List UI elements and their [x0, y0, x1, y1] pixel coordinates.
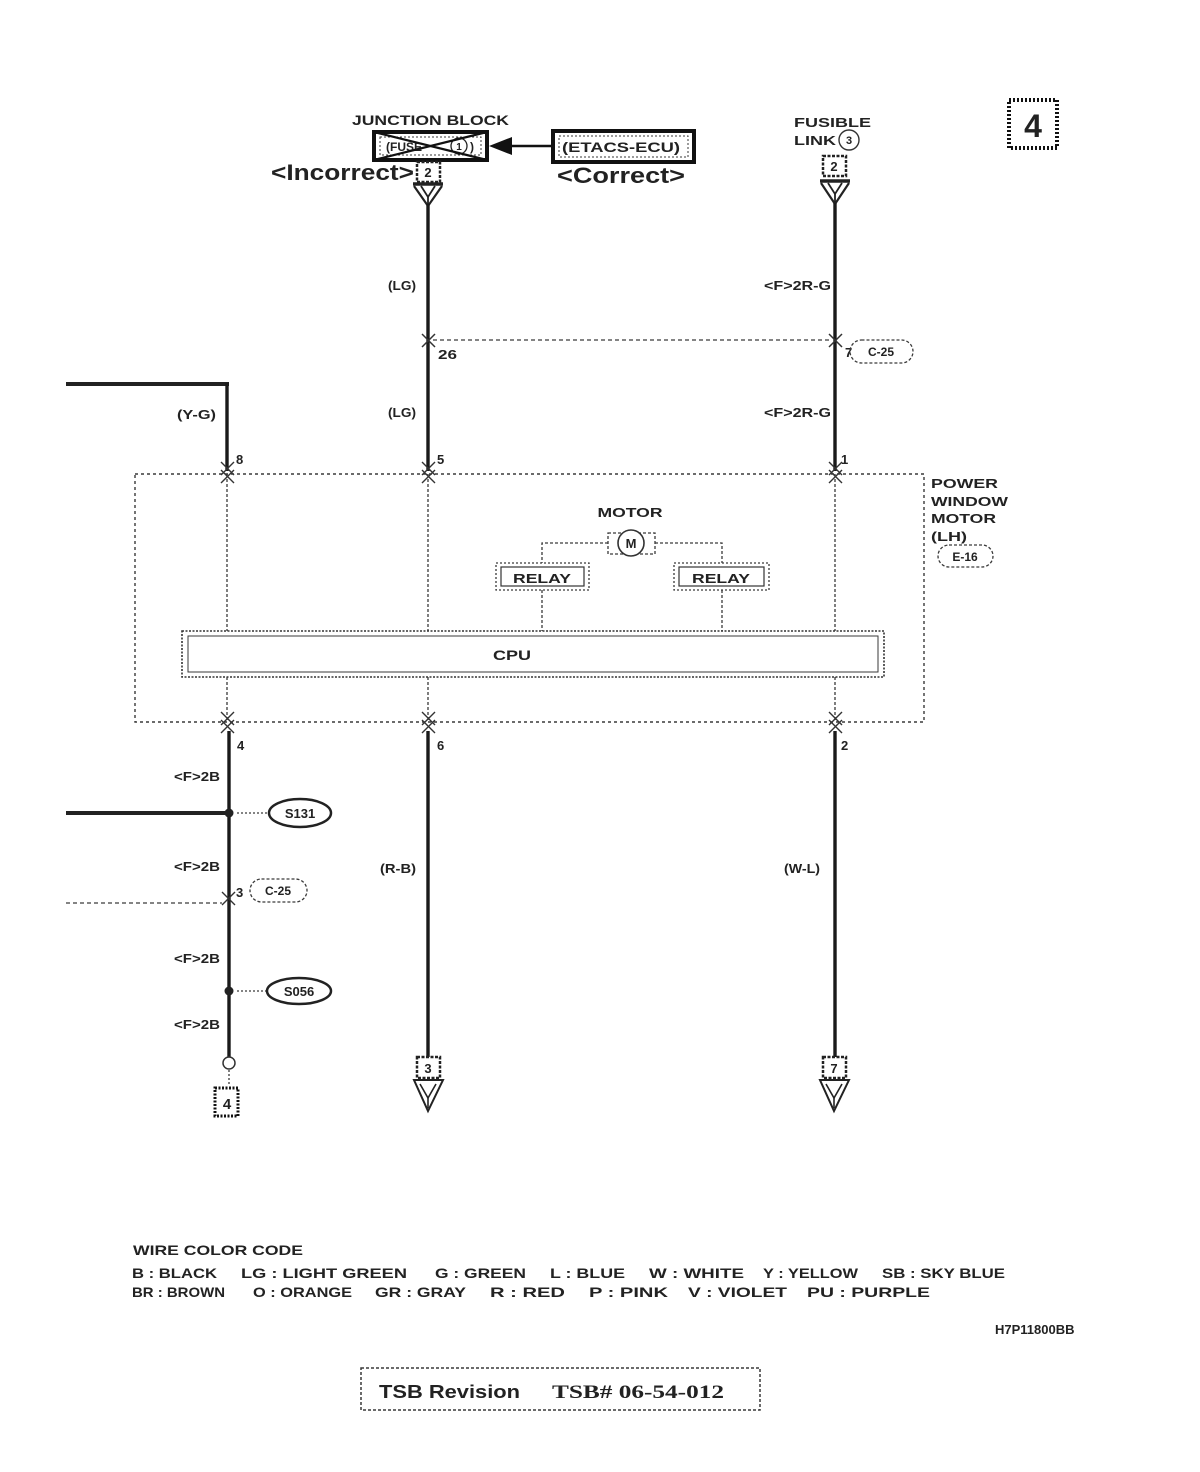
svg-text:PU : PURPLE: PU : PURPLE: [807, 1284, 930, 1300]
svg-text:4: 4: [1024, 108, 1042, 144]
svg-text:BR : BROWN: BR : BROWN: [132, 1284, 225, 1300]
svg-text:4: 4: [237, 738, 245, 753]
svg-text:(R-B): (R-B): [380, 861, 416, 876]
svg-text:E-16: E-16: [952, 550, 978, 564]
svg-text:R : RED: R : RED: [490, 1284, 565, 1300]
svg-text:<F>2R-G: <F>2R-G: [764, 278, 831, 293]
svg-text:8: 8: [236, 452, 243, 467]
svg-text:4: 4: [223, 1096, 232, 1113]
svg-text:GR : GRAY: GR : GRAY: [375, 1284, 467, 1300]
svg-text:1: 1: [456, 142, 462, 153]
svg-text:7: 7: [830, 1061, 837, 1076]
svg-text:Y : YELLOW: Y : YELLOW: [763, 1265, 859, 1281]
svg-text:3: 3: [236, 885, 243, 900]
svg-text:<F>2R-G: <F>2R-G: [764, 405, 831, 420]
svg-text:WIRE COLOR CODE: WIRE COLOR CODE: [133, 1242, 303, 1258]
svg-text:(LG): (LG): [388, 278, 416, 293]
svg-text:<F>2B: <F>2B: [174, 769, 220, 784]
svg-text:L : BLUE: L : BLUE: [550, 1265, 625, 1281]
svg-text:W : WHITE: W : WHITE: [649, 1265, 744, 1281]
svg-text:MOTOR: MOTOR: [598, 505, 664, 520]
svg-text:): ): [470, 140, 474, 154]
svg-text:P : PINK: P : PINK: [589, 1284, 668, 1300]
svg-text:(LG): (LG): [388, 405, 416, 420]
svg-text:WINDOW: WINDOW: [931, 494, 1009, 509]
svg-text:3: 3: [424, 1061, 431, 1076]
svg-text:<F>2B: <F>2B: [174, 1017, 220, 1032]
svg-text:H7P11800BB: H7P11800BB: [995, 1322, 1075, 1337]
svg-text:LINK: LINK: [794, 133, 837, 148]
svg-text:SB : SKY BLUE: SB : SKY BLUE: [882, 1265, 1005, 1281]
svg-text:5: 5: [437, 452, 444, 467]
svg-text:1: 1: [841, 452, 848, 467]
svg-text:G : GREEN: G : GREEN: [435, 1265, 526, 1281]
svg-text:JUNCTION BLOCK: JUNCTION BLOCK: [352, 112, 509, 128]
svg-text:TSB Revision: TSB Revision: [379, 1382, 520, 1402]
svg-text:2: 2: [830, 159, 837, 174]
svg-text:POWER: POWER: [931, 476, 999, 491]
svg-text:CPU: CPU: [493, 647, 531, 663]
svg-text:B : BLACK: B : BLACK: [132, 1265, 217, 1281]
svg-text:2: 2: [424, 165, 431, 180]
svg-text:S056: S056: [284, 984, 314, 999]
svg-text:C-25: C-25: [868, 345, 894, 359]
svg-text:S131: S131: [285, 806, 315, 821]
svg-text:RELAY: RELAY: [692, 571, 750, 586]
svg-text:C-25: C-25: [265, 884, 291, 898]
svg-text:FUSIBLE: FUSIBLE: [794, 115, 871, 130]
svg-text:<F>2B: <F>2B: [174, 859, 220, 874]
svg-text:<Correct>: <Correct>: [557, 163, 685, 188]
svg-text:3: 3: [846, 135, 852, 147]
svg-text:(LH): (LH): [931, 529, 967, 544]
svg-text:TSB# 06-54-012: TSB# 06-54-012: [552, 1382, 724, 1403]
svg-text:O : ORANGE: O : ORANGE: [253, 1284, 352, 1300]
svg-text:V : VIOLET: V : VIOLET: [688, 1284, 788, 1300]
svg-text:(W-L): (W-L): [784, 861, 820, 876]
svg-text:RELAY: RELAY: [513, 571, 571, 586]
svg-text:(Y-G): (Y-G): [177, 407, 216, 422]
svg-text:26: 26: [438, 347, 457, 362]
svg-text:<F>2B: <F>2B: [174, 951, 220, 966]
svg-text:2: 2: [841, 738, 848, 753]
svg-text:(ETACS-ECU): (ETACS-ECU): [562, 139, 680, 155]
svg-text:LG : LIGHT GREEN: LG : LIGHT GREEN: [241, 1265, 407, 1281]
svg-text:MOTOR: MOTOR: [931, 511, 997, 526]
svg-text:<Incorrect>: <Incorrect>: [271, 160, 414, 185]
svg-text:M: M: [626, 536, 637, 551]
svg-text:6: 6: [437, 738, 444, 753]
